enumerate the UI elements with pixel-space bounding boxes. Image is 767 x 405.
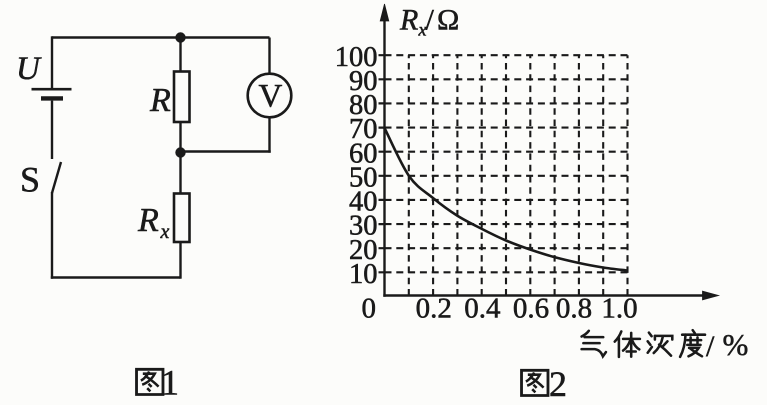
svg-text:0: 0 bbox=[362, 293, 377, 325]
wire switch to bottom wire bbox=[51, 192, 53, 279]
resistor R bbox=[174, 72, 190, 123]
svg-text:1: 1 bbox=[161, 363, 179, 403]
caption 图2 bbox=[522, 364, 567, 404]
horizontal dashed gridlines 10..100 bbox=[385, 55, 629, 272]
svg-text:R: R bbox=[399, 4, 418, 37]
svg-text:/: / bbox=[426, 4, 435, 37]
svg-text:0.4: 0.4 bbox=[464, 293, 501, 325]
y-axis ticks bbox=[379, 55, 385, 272]
wire left vertical from top wire to battery bbox=[51, 36, 53, 88]
resistor Rx bbox=[174, 194, 190, 243]
x-axis concentration bbox=[383, 291, 718, 300]
caption 图1 bbox=[137, 363, 179, 403]
wire voltmeter top branch bbox=[268, 38, 270, 74]
wire Rx to bottom wire bbox=[179, 242, 181, 279]
x tick labels bbox=[416, 293, 638, 325]
wire from top node down to resistor R bbox=[179, 38, 181, 73]
wire top horizontal from battery branch to voltmeter branch bbox=[52, 36, 270, 38]
vertical dashed gridlines 0.1..1.0 bbox=[409, 55, 628, 295]
svg-text:0.2: 0.2 bbox=[416, 293, 452, 325]
wire bottom horizontal bbox=[51, 276, 181, 278]
battery U bbox=[32, 89, 72, 98]
svg-text:1.0: 1.0 bbox=[601, 293, 637, 325]
voltmeter V bbox=[248, 74, 292, 118]
char 度 bbox=[680, 330, 705, 357]
node B junction dot middle bbox=[175, 147, 185, 157]
svg-text:R: R bbox=[149, 82, 171, 119]
char 浓 bbox=[648, 333, 673, 356]
curve Rx vs concentration bbox=[385, 128, 628, 271]
svg-text:S: S bbox=[20, 160, 40, 200]
wire voltmeter bottom horizontal to node B bbox=[181, 150, 271, 152]
switch S blade bbox=[52, 162, 61, 193]
svg-text:Ω: Ω bbox=[437, 4, 459, 37]
char 体 bbox=[615, 331, 640, 357]
svg-text:10: 10 bbox=[349, 259, 378, 290]
svg-text:V: V bbox=[259, 79, 283, 115]
svg-text:/: / bbox=[706, 330, 715, 363]
node A junction dot top bbox=[175, 32, 185, 42]
svg-text:R: R bbox=[137, 202, 159, 239]
y tick labels 10..100 bbox=[335, 42, 378, 290]
wire voltmeter bottom branch bbox=[268, 118, 270, 153]
label Rx bbox=[137, 202, 170, 243]
wire node B to resistor Rx bbox=[179, 153, 181, 194]
wire battery to switch bbox=[51, 101, 53, 159]
axis title Rx/Ohm bbox=[399, 4, 459, 40]
wire R to node B bbox=[179, 122, 181, 153]
svg-text:%: % bbox=[723, 327, 749, 362]
svg-text:0.8: 0.8 bbox=[556, 293, 592, 325]
axis title 气体浓度/% bbox=[582, 327, 749, 363]
y-axis Rx/Ohm bbox=[380, 4, 389, 297]
char 气 bbox=[582, 331, 606, 357]
svg-text:U: U bbox=[16, 51, 42, 87]
svg-text:2: 2 bbox=[549, 364, 567, 404]
svg-text:x: x bbox=[160, 221, 170, 243]
svg-text:0.6: 0.6 bbox=[513, 293, 549, 325]
